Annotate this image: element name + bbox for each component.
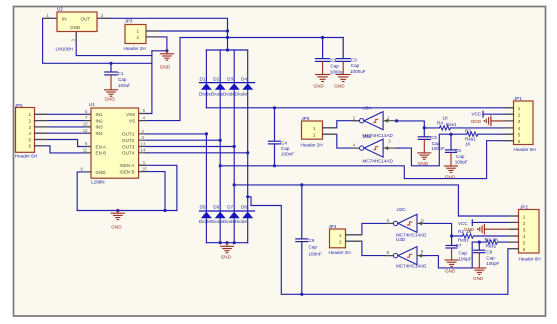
wire U3C input to R2 [424, 223, 463, 236]
node OUT net at JP3 pin1 [226, 29, 229, 32]
svg-text:DiodeDiodeDiodeDiode: DiodeDiodeDiodeDiode [199, 91, 247, 96]
svg-text:C8: C8 [486, 249, 492, 254]
wire U3B input [383, 147, 399, 149]
svg-text:OUT4: OUT4 [122, 151, 135, 156]
wire U3C input [417, 222, 426, 224]
svg-text:MC74HC14AD: MC74HC14AD [363, 159, 394, 164]
svg-text:IN3: IN3 [96, 125, 104, 130]
pin stubs U1 right [139, 114, 146, 172]
svg-text:MC74HC14AD: MC74HC14AD [396, 264, 427, 269]
wire ISEN B [139, 172, 165, 211]
svg-text:JP3: JP3 [125, 19, 133, 24]
svg-text:JP2: JP2 [520, 204, 528, 209]
wire col2 net to JP1 pin6 [220, 141, 513, 179]
svg-text:Cap: Cap [351, 63, 360, 68]
inverter U3D [398, 247, 417, 265]
svg-text:C3: C3 [351, 58, 357, 63]
wire U3D input [417, 255, 426, 257]
svg-text:1K: 1K [443, 115, 450, 120]
svg-text:LM109H: LM109H [56, 47, 73, 52]
ground below C2 [316, 61, 330, 81]
svg-text:U1: U1 [89, 102, 95, 107]
wire OUT4 [146, 152, 248, 154]
node C9 bottom [300, 293, 303, 296]
svg-text:Cap: Cap [459, 251, 468, 256]
svg-text:ISEN A: ISEN A [120, 163, 136, 168]
svg-text:ISEN B: ISEN B [120, 169, 135, 174]
svg-text:5: 5 [29, 137, 32, 142]
wire R1 row to JP2 pin5 [479, 241, 486, 243]
svg-text:14: 14 [141, 148, 146, 153]
svg-text:Res1: Res1 [446, 122, 457, 127]
capacitor C3 [336, 38, 350, 62]
ground below JP3 [160, 51, 173, 60]
svg-text:GND: GND [334, 84, 345, 89]
svg-text:D7: D7 [227, 205, 233, 210]
svg-text:U3C: U3C [397, 207, 407, 212]
svg-text:GND: GND [111, 225, 122, 230]
wire U3D input to R1 [424, 242, 480, 268]
svg-text:D5: D5 [200, 205, 206, 210]
ground below C3 [336, 61, 350, 81]
cathode bar D1-D4 [200, 82, 255, 84]
svg-text:GND: GND [221, 254, 232, 259]
resistor R2 [462, 234, 473, 238]
svg-text:Header 6H: Header 6H [519, 257, 541, 262]
svg-text:100uf: 100uf [118, 83, 130, 88]
wire ISEN A [139, 165, 177, 210]
node ISENB junction [163, 209, 166, 212]
wire diode column 2 [219, 50, 221, 83]
ground below C8 [473, 253, 486, 275]
wire diode column 4 [247, 50, 249, 83]
svg-text:D6: D6 [213, 205, 219, 210]
svg-text:100pF: 100pF [455, 160, 468, 165]
ground U1 bottom [116, 209, 119, 212]
wire JP5 pin2 to U3B output [323, 134, 360, 148]
svg-text:100nF: 100nF [281, 152, 294, 157]
pin stubs JP2 [509, 216, 519, 249]
ground below C6 [445, 152, 458, 172]
svg-text:6: 6 [523, 247, 526, 252]
svg-text:Header 6H: Header 6H [514, 147, 536, 152]
svg-text:D3: D3 [227, 77, 233, 82]
capacitor C8 [474, 242, 485, 253]
svg-text:IN4: IN4 [96, 131, 104, 136]
node C7 junction [450, 234, 453, 237]
svg-text:GND: GND [473, 276, 484, 281]
pin stubs U1 left [85, 114, 91, 153]
resistor R1 [486, 240, 497, 244]
svg-text:3: 3 [518, 119, 521, 124]
ground below C1 [105, 75, 118, 96]
wire col3 net to JP2 pin1 [234, 185, 518, 216]
wire JP6 pin6 to EN B [35, 146, 92, 153]
svg-text:100pF: 100pF [459, 256, 472, 261]
svg-text:OUT2: OUT2 [122, 138, 135, 143]
svg-text:C4: C4 [281, 140, 287, 145]
svg-text:4: 4 [523, 234, 526, 239]
svg-text:OUT: OUT [81, 17, 91, 22]
svg-text:GND: GND [464, 227, 475, 232]
svg-text:GND: GND [105, 97, 116, 102]
wire U2 pin1 IN net [43, 18, 152, 63]
svg-text:Cap: Cap [118, 77, 127, 82]
svg-text:Cap: Cap [309, 244, 318, 249]
wire diode column 1 upper [205, 50, 207, 83]
svg-text:1: 1 [339, 233, 342, 238]
svg-text:JP1: JP1 [514, 96, 522, 101]
wire JP3 pin1 [146, 30, 228, 32]
svg-text:L298N: L298N [91, 180, 105, 185]
svg-text:GND: GND [70, 25, 81, 30]
svg-text:D8: D8 [241, 205, 247, 210]
svg-text:D2: D2 [213, 77, 219, 82]
svg-text:1000uF: 1000uF [350, 69, 366, 74]
svg-text:U2: U2 [57, 7, 63, 12]
wire diode column 3 [233, 50, 235, 83]
svg-text:1: 1 [313, 126, 316, 131]
wire VS riser to cap rail [139, 38, 344, 121]
svg-text:GND: GND [314, 84, 325, 89]
wire R3 row to JP1 pin5 [451, 133, 467, 135]
svg-text:GND: GND [471, 119, 482, 124]
wire OUT3 [146, 146, 234, 148]
svg-text:VCC: VCC [472, 112, 482, 117]
svg-text:2: 2 [137, 35, 140, 40]
wire JP6 pin4 to IN4 [35, 132, 92, 134]
wire VSS riser [152, 50, 167, 52]
svg-text:2: 2 [518, 113, 521, 118]
svg-text:EN B: EN B [96, 151, 107, 156]
ground below C7 [445, 248, 458, 266]
wire JP4 pin2 to U3D output [346, 241, 394, 255]
svg-text:2: 2 [313, 132, 316, 137]
wire top diode bus [206, 49, 247, 51]
svg-text:R4: R4 [437, 120, 443, 125]
wire diode column 1 lower [205, 134, 207, 212]
wire bottom diode bus [206, 242, 247, 244]
svg-text:2: 2 [523, 221, 526, 226]
svg-text:Header 6H: Header 6H [15, 153, 37, 158]
node JP3 ground junction [165, 49, 168, 52]
svg-text:GND: GND [445, 174, 456, 179]
wire JP5 pin1 to U3A output [323, 121, 360, 128]
wire U3A input [383, 120, 397, 122]
svg-text:U3D: U3D [396, 237, 406, 242]
svg-text:OUT1: OUT1 [122, 132, 135, 137]
svg-text:Cap: Cap [486, 256, 495, 261]
svg-text:1: 1 [518, 106, 521, 111]
driver U1 L298N [91, 108, 139, 178]
svg-text:1: 1 [29, 112, 32, 117]
svg-text:R3: R3 [465, 128, 471, 133]
capacitor C5 [418, 128, 430, 139]
svg-text:1000uf: 1000uf [330, 70, 345, 75]
ground below C5 [418, 139, 431, 159]
svg-text:D1: D1 [200, 77, 206, 82]
ground bottom diode bus [221, 243, 234, 253]
svg-text:IN2: IN2 [96, 118, 104, 123]
svg-text:VS: VS [129, 118, 135, 123]
wire JP6 pin3 to IN3 [35, 126, 92, 128]
svg-text:4: 4 [29, 131, 32, 136]
svg-text:VSS: VSS [126, 112, 135, 117]
wire col4 net to JP2 pin6 via bottom [248, 197, 519, 294]
svg-text:C7: C7 [456, 243, 462, 248]
svg-text:1K: 1K [465, 141, 472, 146]
wire JP3 pin2 to ground [146, 37, 167, 51]
node C2 junction [321, 36, 324, 39]
svg-text:Cap: Cap [281, 146, 290, 151]
svg-text:JP5: JP5 [302, 116, 310, 121]
svg-text:5: 5 [523, 241, 526, 246]
svg-text:1: 1 [137, 29, 140, 34]
svg-text:Cap: Cap [330, 64, 339, 69]
capacitor C7 [446, 236, 457, 248]
wire JP4 pin1 to U3C output [346, 223, 394, 234]
svg-text:EN A: EN A [96, 144, 107, 149]
node C5 junction [423, 126, 426, 129]
inverter U3B [364, 139, 383, 157]
svg-text:R1: R1 [485, 237, 491, 242]
svg-text:OUT3: OUT3 [122, 144, 135, 149]
svg-text:IN: IN [62, 17, 67, 22]
wire OUT2 [146, 139, 220, 141]
svg-text:GND: GND [96, 170, 107, 175]
wire U2 GND pin [76, 32, 152, 56]
capacitor C1 [105, 63, 117, 75]
pin stubs JP6 [35, 114, 49, 146]
svg-text:100pF: 100pF [486, 261, 499, 266]
resistor R3 [467, 132, 478, 136]
svg-text:3: 3 [29, 125, 32, 130]
svg-text:Header 2H: Header 2H [329, 250, 351, 255]
svg-text:Res1: Res1 [486, 244, 497, 249]
svg-text:2: 2 [339, 240, 342, 245]
svg-text:U3A: U3A [363, 106, 373, 111]
regulator U2 [57, 12, 97, 32]
svg-text:6: 6 [29, 144, 32, 149]
capacitor C6 [446, 134, 457, 152]
svg-text:C1: C1 [118, 71, 124, 76]
capacitor C9 [296, 185, 308, 294]
svg-text:C6: C6 [455, 148, 461, 153]
wire long net D1 to JP1 pin1 [206, 107, 513, 109]
wire R2 to JP2 pin4 [474, 235, 519, 237]
wire OUT1 [146, 133, 206, 135]
node C4 top [273, 106, 276, 109]
wire U2 OUT net [97, 18, 228, 50]
node C4 bottom [273, 164, 276, 167]
svg-text:C9: C9 [309, 238, 315, 243]
svg-text:1K: 1K [493, 237, 500, 242]
node C8 junction [478, 241, 481, 244]
wire U3A input to R4 [397, 121, 440, 128]
svg-text:100nF: 100nF [309, 251, 322, 256]
svg-text:Header 2H: Header 2H [301, 142, 323, 147]
svg-text:2: 2 [29, 119, 32, 124]
svg-text:5: 5 [518, 133, 521, 138]
svg-text:13: 13 [141, 141, 146, 146]
wire JP6 pin5 to EN A [35, 140, 92, 147]
svg-text:GND: GND [160, 65, 171, 70]
svg-text:Cap: Cap [456, 154, 465, 159]
wire JP6 pin1 to IN1 [35, 113, 92, 115]
capacitor C2 [316, 38, 330, 62]
pin stubs JP1 [504, 108, 514, 141]
svg-text:GND: GND [445, 268, 456, 273]
resistor R4 [440, 126, 451, 130]
svg-text:IN1: IN1 [96, 112, 104, 117]
svg-text:D4: D4 [241, 77, 247, 82]
wire U3B input to R3 [397, 134, 451, 166]
wire U1 GND to ground [77, 172, 177, 211]
svg-text:15: 15 [142, 166, 147, 171]
svg-text:10: 10 [83, 122, 88, 127]
node C9 top [300, 183, 303, 186]
capacitor C4 [269, 108, 281, 166]
node C6 junction [449, 133, 452, 136]
svg-text:GND: GND [418, 161, 429, 166]
node C1 junction [109, 62, 112, 65]
svg-text:C5: C5 [431, 135, 437, 140]
svg-text:VCC: VCC [458, 221, 468, 226]
svg-text:6: 6 [518, 139, 521, 144]
wire JP6 pin2 to IN2 [35, 120, 92, 122]
svg-text:1: 1 [523, 214, 526, 219]
node OUT net at VS rail [226, 36, 229, 39]
cathode bar D5-D8 [200, 210, 255, 212]
svg-text:3: 3 [523, 227, 526, 232]
svg-text:4: 4 [518, 126, 521, 131]
svg-text:100pF: 100pF [431, 146, 444, 151]
svg-text:U3B: U3B [363, 134, 372, 139]
svg-text:11: 11 [83, 148, 88, 153]
svg-text:12: 12 [83, 128, 88, 133]
svg-text:JP4: JP4 [329, 224, 337, 229]
svg-text:Header 2H: Header 2H [124, 46, 146, 51]
wires diode anodes to bottom bus [206, 218, 247, 243]
wire R4 to JP1 pin4 [451, 127, 514, 129]
